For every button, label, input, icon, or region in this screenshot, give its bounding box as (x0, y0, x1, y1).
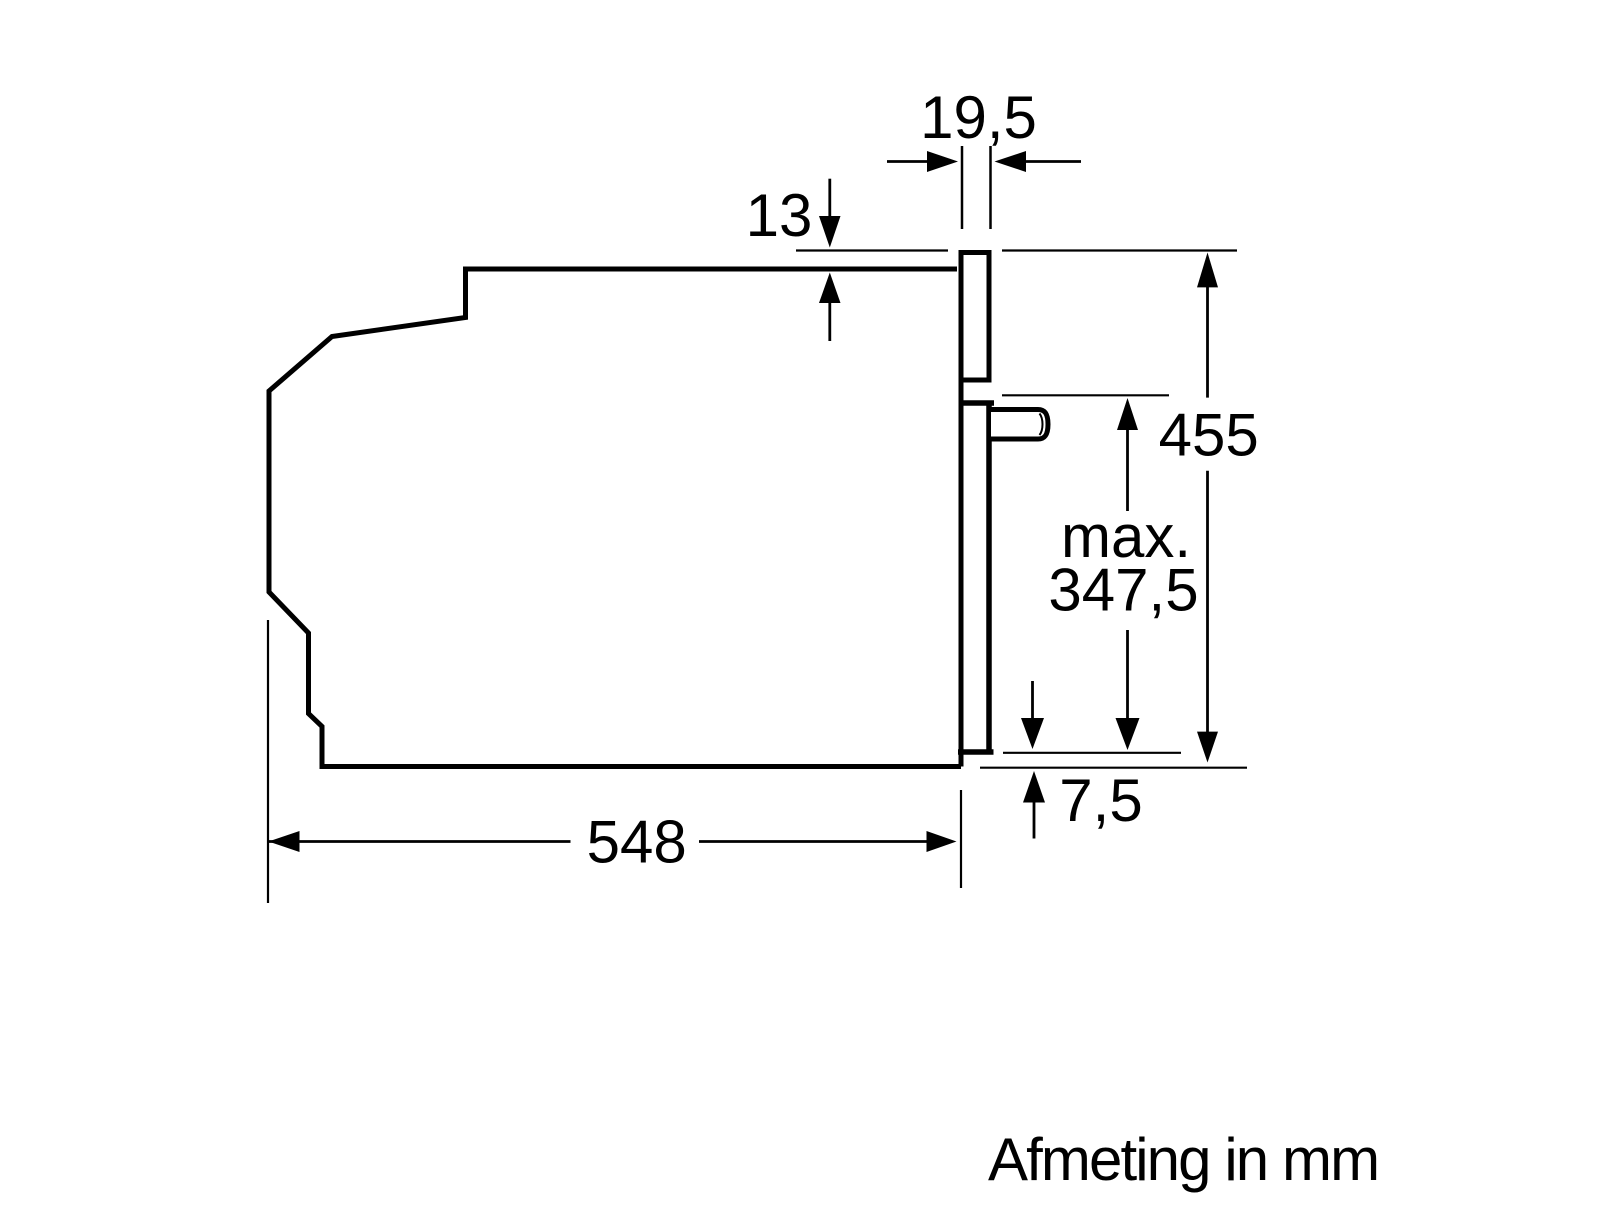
548 right extension line (960, 790, 962, 888)
door top edge (959, 400, 995, 406)
door front edge (986, 403, 992, 752)
19,5 dimension left arrow (887, 160, 928, 163)
svg-text:19,5: 19,5 (920, 84, 1037, 151)
455 bottom extension line (980, 767, 1247, 769)
347,5 bottom reference line (1003, 752, 1181, 754)
7,5 dimension up arrow (1033, 802, 1036, 839)
455 dimension line lower (1206, 471, 1209, 733)
handle knob (991, 410, 1048, 440)
548 dimension line left arrow (269, 840, 571, 843)
548 left extension line (267, 620, 269, 903)
svg-text:13: 13 (746, 182, 813, 249)
347,5 dimension line upper arrow (1126, 429, 1129, 511)
347,5 dimension line lower arrow (1126, 630, 1129, 719)
handle knob inner line (1040, 414, 1043, 436)
svg-text:7,5: 7,5 (1059, 767, 1142, 834)
oven body outline (269, 269, 961, 767)
455 dimension line upper (1206, 286, 1209, 398)
19,5 left extension line (961, 146, 964, 229)
svg-text:548: 548 (587, 809, 687, 876)
svg-text:455: 455 (1159, 402, 1259, 469)
door bottom edge (958, 749, 994, 755)
347,5 top reference line (1002, 394, 1169, 396)
svg-text:347,5: 347,5 (1048, 557, 1198, 624)
455 top extension line (1002, 249, 1237, 251)
svg-text:Afmeting in mm: Afmeting in mm (988, 1126, 1378, 1193)
front wall vertical (959, 380, 964, 767)
7,5 dimension down arrow (1031, 681, 1034, 719)
19,5 right extension line (989, 146, 992, 229)
front fascia panel (961, 253, 989, 381)
548 dimension line right arrow (699, 840, 928, 843)
13 dimension up arrow (828, 302, 831, 341)
13 dimension down arrow (828, 179, 831, 217)
niche top reference line (13 dim) (796, 249, 948, 251)
19,5 dimension right arrow (1025, 160, 1081, 163)
